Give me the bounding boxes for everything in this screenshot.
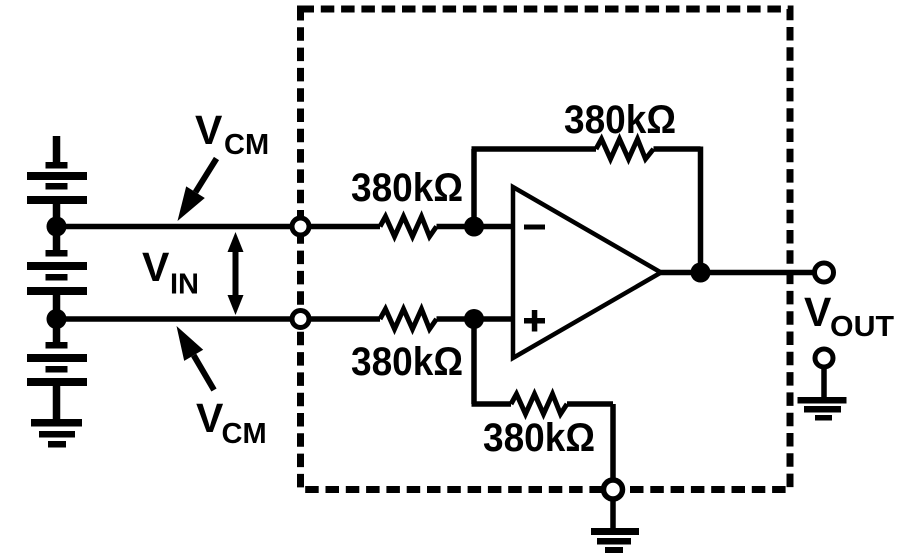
wire: B1 to B2 through top tap <box>53 204 61 250</box>
label VCM (lower) <box>196 395 267 450</box>
ground symbol (output reference) <box>798 397 847 421</box>
resistor R4 380k (to ground) <box>511 394 567 414</box>
ground terminal circle (right) <box>815 349 833 367</box>
wire: feedback descender to output node <box>698 147 704 273</box>
svg-text:OUT: OUT <box>830 311 894 343</box>
svg-text:380kΩ: 380kΩ <box>351 340 463 384</box>
svg-text:CM: CM <box>224 129 269 161</box>
input terminal circle (lower, +IN) <box>292 311 309 328</box>
wire: feedback riser from inverting node <box>471 149 477 227</box>
wire: feedback top run (right) <box>654 146 701 152</box>
svg-text:IN: IN <box>170 269 199 301</box>
dashed amplifier boundary box <box>301 9 791 490</box>
ground symbol (reference) <box>591 528 639 553</box>
label VCM (upper) <box>195 107 269 161</box>
resistor R1 380k (upper input) <box>380 217 437 237</box>
reference terminal circle (bottom) <box>604 480 623 499</box>
wire: upper input net (top tap to inverting input) <box>57 224 381 230</box>
junction dot: inverting input node <box>464 217 484 237</box>
arrow: VIN differential double arrow <box>228 232 244 315</box>
svg-text:380kΩ: 380kΩ <box>564 98 676 142</box>
input terminal circle (upper, -IN) <box>292 218 309 235</box>
svg-text:V: V <box>804 289 832 335</box>
junction dot: bottom battery tap <box>47 309 67 329</box>
junction dot: non-inverting input node <box>464 309 484 329</box>
junction dot: output node <box>691 263 711 283</box>
wire: lower input net (bottom tap to non-inverting input) <box>57 316 381 322</box>
wire: ground-leg horizontal run (left) <box>472 401 512 407</box>
wire: ground-leg horizontal run (right) <box>567 401 613 407</box>
svg-text:V: V <box>196 395 224 441</box>
wire: R1 output to op-amp inverting input <box>437 224 514 230</box>
svg-text:CM: CM <box>222 418 267 450</box>
label VOUT <box>804 289 894 343</box>
wire: ground-leg riser from non-inverting node <box>471 319 477 404</box>
svg-text:380kΩ: 380kΩ <box>483 416 595 460</box>
junction dot: top battery tap <box>47 217 67 237</box>
battery stack top terminal stub <box>53 136 61 163</box>
wire: ground-leg descender to reference terminal <box>610 404 616 479</box>
arrow: VCM lower pointer <box>177 326 215 390</box>
battery B3 plates <box>27 342 87 386</box>
arrow: VCM upper pointer <box>178 159 217 222</box>
output terminal circle <box>815 263 834 282</box>
wire: B2 to B3 through bottom tap <box>53 295 61 342</box>
wire: op-amp output to VOUT terminal <box>658 270 813 276</box>
op-amp U1 <box>513 187 661 358</box>
svg-text:V: V <box>195 107 223 153</box>
battery B2 plates <box>27 250 87 295</box>
svg-text:380kΩ: 380kΩ <box>351 166 463 210</box>
resistor R2 380k (lower input) <box>380 309 437 329</box>
resistor R3 380k (feedback) <box>596 139 654 159</box>
wire: R2 output to op-amp non-inverting input <box>437 316 514 322</box>
wire: right ground terminal stub <box>821 369 827 398</box>
battery B1 plates <box>27 162 87 204</box>
wire: reference terminal to ground <box>610 501 616 529</box>
wire: feedback top run (left) <box>472 146 597 152</box>
svg-text:V: V <box>142 244 170 290</box>
label VIN <box>142 244 199 301</box>
wire: B3 to ground <box>53 386 61 420</box>
ground symbol (battery stack) <box>31 419 82 448</box>
